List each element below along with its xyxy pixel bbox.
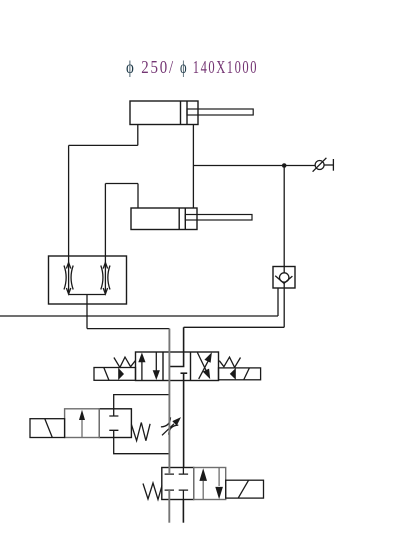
- wire long horizontal to left edge: [0, 315, 278, 317]
- wire P-line below dash: [183, 373, 185, 467]
- valve SV1 right box blocked bottom: [109, 430, 118, 437]
- valve SV1 2/2 body right box: [99, 409, 131, 438]
- throttle element FD1-left arcs: [64, 266, 73, 290]
- throttle TV1 arcs: [161, 417, 178, 434]
- valve DV1 body boxes: [136, 352, 219, 381]
- valve DV2 right box down arrow: [218, 468, 220, 487]
- valve SV1 right box blocked top: [109, 409, 118, 416]
- wire down to flow divider right: [104, 184, 106, 257]
- wire to junction: [193, 165, 284, 167]
- test point M1 circle: [315, 161, 324, 170]
- test point M1 diagonal: [313, 158, 327, 172]
- title text phi250/phi140X1000: [126, 57, 258, 77]
- wire horizontal to left: [69, 144, 138, 146]
- cylinder CYL1 piston: [181, 101, 188, 125]
- cylinder CYL1 rod: [187, 109, 253, 115]
- wire bypass loop bottom: [114, 438, 170, 454]
- wire FD1 output down: [86, 295, 88, 329]
- flow divider block FD1: [49, 256, 127, 304]
- wire A-line horizontal: [87, 328, 169, 330]
- wire CV1 left port down: [277, 288, 279, 316]
- wire main grey line A through valves: [168, 329, 170, 523]
- wire horizontal to left lower: [105, 183, 138, 185]
- valve DV1 right box crossed arrow 1: [197, 353, 206, 372]
- spring DV1 left: [114, 357, 135, 367]
- solenoid DV1 right diagonal: [244, 368, 250, 380]
- solenoid SV1 diagonal: [45, 419, 53, 438]
- spring SV1 right: [131, 423, 150, 441]
- spring DV2 left: [143, 483, 162, 500]
- throttle element FD1-left arrowheads: [66, 263, 70, 295]
- throttle element FD1-right arcs: [101, 266, 110, 290]
- solenoid DV2 box: [226, 480, 264, 498]
- cylinder CYL2 body: [131, 208, 197, 230]
- cylinder CYL2 piston: [179, 208, 185, 230]
- solenoid DV1 left box: [94, 368, 136, 381]
- valve DV1 left box up arrow: [141, 356, 143, 381]
- cylinder CYL2 rod: [185, 215, 252, 221]
- test point M1 stem: [324, 164, 333, 166]
- wire P below valve DV2: [182, 500, 184, 523]
- valve SV1 left box up arrow: [81, 414, 83, 438]
- valve DV2 left box blocked ports: [165, 468, 189, 475]
- test point M1 end bar: [332, 159, 334, 171]
- wire junction down to check valve: [283, 166, 285, 273]
- svg-text:ϕ 140X1000: ϕ 140X1000: [180, 57, 258, 77]
- valve DV1 right box crossed arrow 2: [199, 361, 208, 379]
- wire between cylinders vertical: [192, 125, 194, 209]
- valve DV2 right box up arrow: [202, 481, 204, 500]
- wire junction to test point: [284, 165, 315, 167]
- wire B-line horizontal: [184, 326, 285, 328]
- solenoid DV2 diagonal: [238, 480, 248, 498]
- throttle element FD1-left line: [68, 256, 70, 295]
- solenoid DV1 right box: [219, 368, 261, 380]
- svg-text:ϕ 250/: ϕ 250/: [126, 57, 175, 77]
- throttle element FD1-right line: [104, 256, 106, 295]
- wire bypass loop top: [114, 395, 170, 409]
- check valve CV1 box: [273, 267, 295, 289]
- wire CYL1 rod-end port down: [137, 125, 139, 146]
- node junction dot: [282, 163, 287, 168]
- wire FD1 internal connector: [69, 294, 106, 296]
- check valve CV1 seat: [275, 276, 292, 284]
- wire CV1 outlet down: [283, 288, 285, 327]
- check valve CV1 ball: [280, 273, 289, 282]
- cylinder CYL1 body: [130, 101, 198, 125]
- valve DV1 middle box blocked P dash: [181, 372, 188, 374]
- valve DV2 body right box: [194, 468, 226, 500]
- spring DV1 right: [219, 357, 240, 367]
- solenoid DV1 left diagonal: [104, 368, 109, 381]
- wire left branch down to flow divider: [68, 145, 70, 256]
- solenoid DV1 left arrow triangle: [118, 368, 124, 380]
- solenoid DV1 right arrow triangle: [230, 368, 236, 380]
- valve DV1 left box down arrow: [155, 352, 157, 376]
- throttle TV1 adjust arrow: [162, 424, 174, 436]
- wire CYL2 rod-end port up: [137, 184, 139, 209]
- throttle element FD1-right arrowheads: [103, 263, 107, 295]
- valve DV2 body left box: [162, 468, 194, 500]
- solenoid SV1 box: [30, 419, 65, 438]
- valve DV1 middle box B-to-A polyline: [170, 352, 184, 367]
- wire CV1 ball to bottom: [283, 282, 285, 288]
- valve SV1 2/2 body left box: [65, 409, 100, 438]
- wire B-line down to valve: [183, 327, 185, 352]
